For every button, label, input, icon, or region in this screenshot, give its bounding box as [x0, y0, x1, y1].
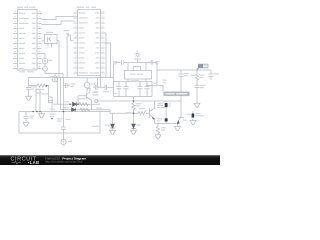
- U1 top label: [17, 7, 23, 8]
- wire connector to power rail: [133, 97, 135, 102]
- C10 C11 labels: [94, 91, 99, 92]
- resistor R3: [79, 103, 89, 106]
- transistor inside K1: [48, 37, 52, 42]
- wire U3 bottom stubs: [128, 79, 146, 82]
- ground G9: [190, 121, 196, 125]
- wire speaker body vertical: [165, 107, 167, 118]
- net flag box: [197, 68, 199, 70]
- R7 label: [139, 108, 145, 109]
- node circle below V1: [43, 66, 48, 71]
- wire xtal bridge: [134, 67, 141, 71]
- wire stair net 1: [42, 17, 78, 20]
- V1 label: [49, 60, 53, 61]
- C14 label: [200, 85, 206, 86]
- wire osc rail: [115, 62, 158, 64]
- Q2 emitter arrow: [152, 117, 154, 120]
- wire rail corner down: [97, 78, 99, 88]
- wire chip link: [146, 86, 163, 92]
- wire U2 corner drop: [100, 76, 102, 88]
- wire bottom rail left: [29, 77, 114, 79]
- wire C13 stub: [63, 112, 65, 128]
- chip text: [166, 93, 188, 94]
- speaker mark right: [169, 103, 171, 104]
- source V1 circle: [42, 58, 48, 64]
- wire rail ext: [197, 69, 211, 71]
- lamp X1: [136, 53, 139, 56]
- wire D4 branch: [112, 113, 114, 124]
- D3 label: [137, 124, 141, 125]
- C15 label: [214, 73, 219, 74]
- U1 bottom labels: [19, 71, 25, 72]
- x163 label: [163, 80, 167, 81]
- transistor Q2: [150, 108, 155, 118]
- wire cap row vert left: [113, 82, 115, 97]
- wire left osc vertical: [113, 63, 115, 82]
- wire C12 drop: [25, 112, 27, 116]
- wire Q2 collector: [154, 101, 156, 108]
- lamp rays: [134, 51, 141, 58]
- capacitor C6: [138, 82, 143, 97]
- SP1 label: [50, 76, 54, 77]
- capacitor C5: [124, 82, 129, 97]
- ground G8: [175, 127, 181, 131]
- wire feeds U2 to osc: [105, 33, 111, 78]
- left col blobs: [53, 104, 58, 105]
- C7 label: [184, 73, 189, 74]
- wire SP1 stub: [54, 74, 56, 77]
- capacitor C14: [195, 85, 200, 87]
- diode D3: [132, 124, 136, 128]
- wire M1 bottom stub: [86, 88, 88, 91]
- annotation chip: [164, 92, 190, 97]
- resistor R7: [138, 110, 146, 115]
- wire cap row bottom rail: [114, 96, 153, 98]
- ground G3 hanging: [39, 112, 45, 118]
- transistor Q1: [87, 92, 92, 100]
- wire right vert x157: [156, 63, 158, 86]
- U3 below label: [130, 80, 139, 81]
- capacitor C16: [145, 82, 150, 97]
- svg-text:▪LAB: ▪LAB: [28, 160, 39, 165]
- wire C13 down: [63, 129, 65, 139]
- capacitor C1: [26, 88, 31, 90]
- wire Q2 emitter down: [155, 119, 159, 127]
- Q5 label: [64, 30, 70, 31]
- capacitor C7: [179, 74, 184, 76]
- loop area text: [50, 114, 56, 115]
- net label left of junction: [126, 112, 132, 113]
- wire R9 stub up: [192, 111, 194, 113]
- capacitor C11: [105, 85, 107, 90]
- Q3 label: [183, 120, 187, 121]
- wire C12 to ground: [25, 118, 27, 122]
- speaker SP1 circle: [52, 76, 58, 82]
- C13 label: [57, 118, 63, 119]
- speaker top pad: [165, 103, 168, 107]
- wire Q1 emitter down: [91, 100, 93, 110]
- IC U3 box: [125, 71, 152, 80]
- IC U2 left pins: [74, 13, 78, 73]
- R8 label: [161, 127, 166, 128]
- wire Q1 base: [78, 96, 87, 105]
- C12 label: [30, 115, 35, 116]
- logo waveform: [12, 161, 22, 164]
- wire R6 to D3: [133, 113, 135, 124]
- svg-text:http://circuitlab.com/c/pyr7kd: http://circuitlab.com/c/pyr7kd/: [45, 160, 83, 164]
- X1 label: [134, 58, 141, 59]
- U1 pin numbers left: [14, 11, 16, 12]
- U2 pin numbers right: [102, 11, 104, 12]
- U2 pin numbers left: [75, 11, 77, 12]
- transistor Q5: [66, 33, 70, 41]
- wire C1 to ground: [28, 90, 30, 96]
- capacitor C10: [96, 85, 98, 90]
- D4 label: [105, 125, 112, 126]
- junction dots: [32, 85, 134, 120]
- relay box K1: [45, 35, 58, 44]
- IC U1 left pins: [13, 14, 18, 69]
- wire Q5 right lead: [71, 40, 74, 42]
- IC U1 body: [18, 10, 38, 71]
- wire Q5 down: [66, 37, 68, 78]
- R3 label: [79, 98, 86, 99]
- wire K1 bottom leads: [48, 44, 52, 48]
- IC U2 body: [78, 10, 101, 76]
- C1 label: [31, 86, 35, 87]
- wire lamp stub: [137, 60, 139, 63]
- U3 inside label: [130, 74, 136, 75]
- resistor R8 vertical: [156, 127, 159, 135]
- resistor R5 vertical: [195, 74, 198, 80]
- capacitor C3: [151, 60, 153, 65]
- ground G1: [26, 96, 32, 100]
- capacitor C9: [48, 97, 53, 102]
- wire rail y70: [157, 68, 197, 70]
- IC U1 right pins: [37, 14, 42, 69]
- resistor R4: [80, 108, 90, 111]
- U2 pin labels left: [79, 12, 86, 13]
- U2 pin labels right: [95, 12, 99, 13]
- C8 label: [71, 84, 76, 85]
- wire cap C8 branch: [64, 84, 71, 86]
- wire power rail y101: [98, 100, 181, 102]
- wire columns to loop: [36, 86, 52, 112]
- ground G7: [155, 135, 161, 139]
- IC U2 right pins: [101, 13, 105, 73]
- diode D2: [72, 108, 76, 112]
- capacitor C4: [117, 82, 122, 97]
- wire stair net 2: [42, 21, 78, 25]
- Q2 label: [157, 105, 163, 106]
- ground G4: [194, 103, 200, 107]
- C2 label: [113, 61, 118, 62]
- U1 pin numbers right: [39, 11, 41, 12]
- U2 bottom inside long dash: [80, 72, 88, 73]
- wire R9 to ground: [192, 118, 194, 121]
- R2 label: [38, 89, 45, 90]
- wire Q3 collector from rail: [180, 101, 182, 118]
- wire cap row top rail: [114, 81, 153, 83]
- footer bar: [0, 155, 220, 165]
- U2 top label: [77, 7, 84, 8]
- R5 labels: [191, 75, 196, 76]
- C4 C5 C6 labels: [114, 93, 118, 94]
- node circle N1: [95, 100, 98, 103]
- wire Q1 collector: [87, 89, 90, 93]
- U2 below labels: [80, 77, 86, 78]
- wire speaker stub from rail: [165, 101, 167, 103]
- wire horizontal cap net: [93, 86, 114, 88]
- wire x181 vertical: [180, 70, 182, 101]
- wire U1 pin to V1: [42, 53, 46, 55]
- Q1 label: [93, 92, 98, 93]
- ground G5: [131, 130, 137, 134]
- wire stub y93: [36, 90, 42, 94]
- wire left net y85: [29, 85, 38, 87]
- Q3 emitter arrow: [177, 121, 180, 124]
- speaker label B: [157, 118, 163, 119]
- mark in V2: [62, 141, 64, 143]
- V1 marks: [44, 60, 46, 62]
- diode D4: [111, 124, 115, 128]
- motor M1 circle: [84, 82, 90, 88]
- speaker bottom pad: [165, 118, 168, 121]
- wire loop rectangle: [19, 110, 110, 133]
- resistor R6 vertical: [132, 101, 135, 113]
- resistor dark pad R9: [192, 114, 195, 118]
- capacitor C8: [66, 83, 68, 88]
- capacitor C2: [122, 60, 124, 65]
- speaker label A: [158, 103, 164, 104]
- wire diode rail 2: [61, 109, 111, 111]
- wire cap C1 drop: [28, 78, 30, 88]
- C3 label: [155, 61, 160, 62]
- U1 pin labels left: [19, 13, 26, 14]
- R9 labels: [187, 114, 191, 115]
- wire x197 vertical: [196, 68, 198, 103]
- wire D4 to ground: [112, 128, 114, 130]
- K1 label: [46, 32, 53, 33]
- bottom mid text: [92, 126, 99, 127]
- wire M1 top stub: [86, 78, 88, 83]
- capacitor C15: [209, 74, 214, 76]
- transistor Q3: [178, 118, 184, 122]
- V2 bottom mark: [63, 145, 65, 147]
- D1 label: [63, 101, 69, 102]
- ground G2: [23, 122, 29, 126]
- wire osc verticals: [128, 63, 146, 71]
- D2 label: [62, 107, 69, 108]
- ground G6: [110, 130, 116, 134]
- capacitor C12: [24, 116, 29, 118]
- M1 label: [91, 83, 95, 84]
- resistor R2: [37, 84, 49, 87]
- wire input rail: [110, 112, 150, 114]
- wire mid verticals: [58, 78, 64, 112]
- wire V1 branch step: [45, 74, 63, 78]
- R6 label: [136, 103, 142, 104]
- capacitor C13: [61, 127, 66, 129]
- wire cap row right vertical: [151, 82, 153, 97]
- input res label: [96, 108, 102, 109]
- wire speaker bottom to emitter: [155, 122, 177, 124]
- wire V1 vertical: [44, 54, 46, 74]
- net flag light half: [203, 64, 208, 67]
- diode D1: [73, 102, 77, 106]
- wire x211 branch: [210, 70, 212, 80]
- wire K1 right lead down: [57, 41, 59, 78]
- SP1 marks: [54, 77, 57, 80]
- wire K1 left lead: [42, 40, 45, 42]
- wire diode rail 1: [58, 103, 101, 105]
- source V2 circle below loop: [61, 139, 66, 144]
- wire D3 to ground: [133, 128, 135, 130]
- U1 pin labels right: [32, 13, 36, 14]
- wire Q3 emitter down: [177, 124, 179, 127]
